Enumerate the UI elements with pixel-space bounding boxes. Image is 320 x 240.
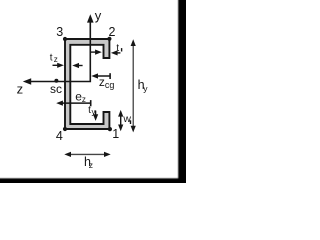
svg-text:2: 2 xyxy=(109,25,116,39)
svg-text:z: z xyxy=(17,82,24,97)
svg-text:sc: sc xyxy=(50,82,62,96)
svg-text:4: 4 xyxy=(56,129,63,143)
svg-text:3: 3 xyxy=(56,25,63,39)
svg-text:y: y xyxy=(143,83,148,93)
svg-text:t: t xyxy=(50,53,53,64)
svg-text:y: y xyxy=(95,8,102,23)
svg-text:cg: cg xyxy=(105,80,115,90)
svg-text:1: 1 xyxy=(112,127,119,141)
svg-text:z: z xyxy=(89,160,93,170)
